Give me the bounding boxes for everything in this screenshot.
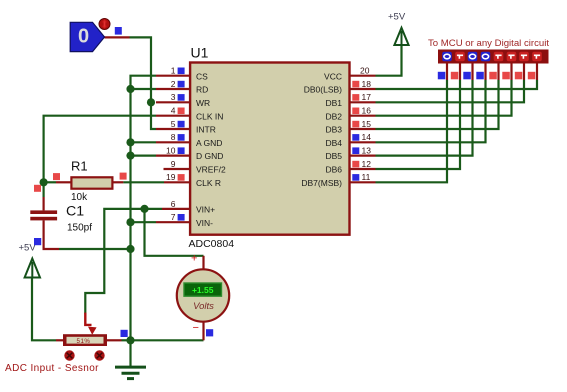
svg-text:5: 5 bbox=[171, 119, 176, 129]
wire: VIN+ pin 6 to pot wiper bbox=[85, 209, 162, 314]
svg-text:CLK R: CLK R bbox=[196, 178, 221, 188]
svg-text:16: 16 bbox=[362, 106, 372, 116]
node WR junction bbox=[147, 98, 155, 106]
svg-text:CLK IN: CLK IN bbox=[196, 111, 223, 121]
svg-text:DB2: DB2 bbox=[325, 111, 342, 121]
svg-text:15: 15 bbox=[362, 119, 372, 129]
IC U1 ADC0804 body bbox=[190, 63, 349, 235]
pin 5 INTR stub bbox=[156, 128, 191, 130]
svg-text:20: 20 bbox=[360, 66, 370, 76]
wire state square C1 bottom bbox=[34, 238, 41, 245]
svg-text:18: 18 bbox=[362, 79, 372, 89]
svg-text:−: − bbox=[193, 322, 199, 334]
svg-text:RD: RD bbox=[196, 85, 208, 95]
pin 9 VREF/2 stub bbox=[164, 168, 192, 170]
header cell 3 bit 0 bbox=[468, 52, 478, 62]
power arrow bottom +5V bbox=[25, 259, 40, 278]
pin 14 DB4 stub bbox=[349, 141, 376, 143]
svg-text:CS: CS bbox=[196, 71, 208, 81]
svg-text:WR: WR bbox=[196, 98, 210, 108]
pin 16 DB2 stub bbox=[349, 115, 376, 117]
power arrow top +5V bbox=[394, 28, 408, 45]
svg-text:DB6: DB6 bbox=[325, 165, 342, 175]
svg-text:7: 7 bbox=[171, 212, 176, 222]
svg-text:INTR: INTR bbox=[196, 125, 216, 135]
pin 11 DB7(MSB) stub bbox=[349, 181, 376, 183]
node bottom rail junction bbox=[126, 336, 134, 344]
header pin stub col 4 bbox=[484, 64, 486, 81]
header pin stub col 7 bbox=[523, 64, 525, 81]
pin numbers left bbox=[166, 66, 176, 223]
header pin stub col 3 bbox=[471, 64, 473, 81]
node C1 bottom junction bbox=[126, 245, 134, 253]
wire: C1 top lead bbox=[42, 182, 44, 197]
wire: R1 right lead to CLK R pin 19 bbox=[112, 181, 123, 183]
svg-text:10k: 10k bbox=[71, 192, 88, 203]
resistor R1 bbox=[71, 177, 112, 188]
wire state square CLK IN junction bbox=[34, 185, 41, 192]
header cell 5 bit 1 bbox=[494, 52, 504, 62]
svg-text:VIN+: VIN+ bbox=[196, 205, 215, 215]
pin state squares left bbox=[178, 68, 185, 221]
svg-text:R1: R1 bbox=[71, 159, 88, 174]
svg-text:3: 3 bbox=[171, 92, 176, 102]
header pin stub col 5 bbox=[497, 64, 499, 81]
wire: A GND branch bbox=[131, 141, 157, 143]
svg-text:51%: 51% bbox=[77, 338, 91, 345]
node RD junction bbox=[126, 85, 134, 93]
pin 13 DB5 stub bbox=[349, 155, 376, 157]
pin name labels left bbox=[196, 71, 226, 228]
svg-text:14: 14 bbox=[362, 132, 372, 142]
node R1 C1 CLK-IN junction bbox=[40, 178, 48, 186]
potentiometer RV body bbox=[63, 334, 107, 346]
pin 7 VIN- stub bbox=[156, 221, 191, 223]
wire: +5V arrow shaft to bottom rail bbox=[32, 262, 56, 340]
pin state squares right bbox=[352, 81, 359, 181]
svg-text:DB7(MSB): DB7(MSB) bbox=[301, 178, 342, 188]
wire: CLK IN pin 4 long left run bbox=[44, 116, 156, 183]
svg-text:U1: U1 bbox=[191, 44, 209, 60]
wire: D GND branch bbox=[131, 155, 157, 157]
wire: DB6 pin 12 to header column bbox=[376, 80, 461, 169]
wire: voltmeter plus feed bbox=[145, 209, 204, 256]
wire: VIN- branch bbox=[131, 221, 157, 223]
pin 1 CS stub bbox=[156, 75, 191, 77]
wire: DB7 pin 11 to header column bbox=[376, 80, 448, 182]
wire state square R1 right bbox=[120, 173, 127, 180]
svg-text:12: 12 bbox=[362, 159, 372, 169]
svg-text:DB4: DB4 bbox=[325, 138, 342, 148]
svg-text:13: 13 bbox=[362, 146, 372, 156]
pin 17 DB1 stub bbox=[349, 101, 376, 103]
svg-text:17: 17 bbox=[362, 92, 372, 102]
pin 6 VIN+ stub bbox=[162, 208, 191, 210]
svg-text:C1: C1 bbox=[66, 204, 84, 220]
svg-text:4: 4 bbox=[171, 106, 176, 116]
pin 4 CLK IN stub bbox=[156, 115, 191, 117]
svg-text:+: + bbox=[191, 253, 197, 265]
pin 19 CLK R stub bbox=[164, 181, 191, 183]
wire: RD branch bbox=[131, 88, 157, 90]
wire: ground stem bbox=[129, 340, 131, 366]
wire: DB3 pin 15 to header column bbox=[376, 80, 499, 129]
svg-text:ADC0804: ADC0804 bbox=[189, 238, 235, 250]
wire state square R1 left bbox=[53, 173, 60, 180]
svg-text:0: 0 bbox=[78, 26, 89, 48]
wire: DB5 pin 13 to header column bbox=[376, 80, 473, 156]
pin 10 D GND stub bbox=[156, 155, 191, 157]
pot terminal marker 1 bbox=[64, 350, 74, 360]
svg-text:VCC: VCC bbox=[324, 71, 342, 81]
header cell 4 bit 0 bbox=[481, 52, 491, 62]
svg-text:1: 1 bbox=[171, 66, 176, 76]
svg-text:Volts: Volts bbox=[193, 301, 214, 312]
svg-text:+5V: +5V bbox=[19, 243, 37, 254]
header pin stub col 6 bbox=[510, 64, 512, 81]
voltmeter top lead bbox=[202, 256, 204, 269]
header cell 2 bit 1 bbox=[455, 52, 465, 62]
svg-text:6: 6 bbox=[171, 199, 176, 209]
svg-text:9: 9 bbox=[171, 159, 176, 169]
svg-text:19: 19 bbox=[166, 172, 176, 182]
header cell 6 bit 1 bbox=[507, 52, 517, 62]
pin 2 RD stub bbox=[156, 88, 191, 90]
wire: +5V to VCC pin 20 bbox=[376, 45, 402, 76]
capacitor C1 bbox=[30, 210, 57, 220]
header wire state squares bbox=[438, 72, 536, 80]
svg-text:10: 10 bbox=[166, 146, 176, 156]
potentiometer RV right lead bbox=[107, 339, 122, 341]
wire: DB1 pin 17 to header column bbox=[376, 80, 525, 102]
pin 8 A GND stub bbox=[156, 141, 191, 143]
wire: DB4 pin 14 to header column bbox=[376, 80, 486, 142]
svg-text:11: 11 bbox=[362, 172, 371, 182]
wire: logic state to WR net bbox=[130, 37, 152, 102]
ground bbox=[115, 367, 146, 379]
wire: CS pin 1 to ground net vertical bbox=[131, 76, 157, 223]
logic state 0 input bbox=[70, 22, 104, 51]
voltmeter body bbox=[177, 269, 229, 321]
voltmeter bottom lead bbox=[202, 322, 204, 341]
svg-text:VREF/2: VREF/2 bbox=[196, 165, 226, 175]
svg-text:DB5: DB5 bbox=[325, 151, 342, 161]
potentiometer RV left lead bbox=[56, 339, 63, 341]
svg-text:+5V: +5V bbox=[388, 12, 406, 23]
svg-text:2: 2 bbox=[171, 79, 176, 89]
pin 3 WR stub bbox=[156, 101, 191, 103]
header pin stub col 8 bbox=[536, 64, 538, 81]
header cell 8 bit 1 bbox=[532, 52, 542, 62]
voltmeter display +1.55 bbox=[184, 283, 222, 296]
pin 18 DB0(LSB) stub bbox=[349, 88, 376, 90]
pin numbers right bbox=[360, 66, 371, 183]
node state square at logic wire bbox=[115, 27, 122, 35]
svg-text:DB0(LSB): DB0(LSB) bbox=[304, 85, 342, 95]
wire: DB2 pin 16 to header column bbox=[376, 80, 512, 116]
wire: bottom rail to voltmeter minus bbox=[131, 339, 204, 341]
svg-text:DB1: DB1 bbox=[325, 98, 342, 108]
pin 15 DB3 stub bbox=[349, 128, 376, 130]
node VIN- junction bbox=[126, 218, 134, 226]
wire: logic state output stub bbox=[105, 36, 130, 38]
svg-text:ADC Input - Sesnor: ADC Input - Sesnor bbox=[5, 363, 99, 374]
wire: WR junction down to INTR pin 5 bbox=[151, 102, 156, 129]
node VIN+ voltmeter junction bbox=[140, 205, 148, 213]
pot terminal marker 2 bbox=[94, 350, 104, 360]
pin 12 DB6 stub bbox=[349, 168, 376, 170]
connector header J1 block bbox=[438, 50, 549, 64]
wire state square pot right bbox=[121, 330, 128, 337]
wire state square voltmeter minus bbox=[206, 329, 213, 336]
svg-text:To MCU or any Digital circuit: To MCU or any Digital circuit bbox=[428, 38, 549, 49]
svg-text:A GND: A GND bbox=[196, 138, 222, 148]
node D GND junction bbox=[126, 152, 134, 160]
pot wiper arrow bbox=[85, 313, 91, 325]
svg-text:+1.55: +1.55 bbox=[192, 285, 214, 295]
node A GND junction bbox=[126, 138, 134, 146]
svg-text:D GND: D GND bbox=[196, 151, 223, 161]
header pin stub col 1 bbox=[446, 64, 448, 81]
header cell 7 bit 1 bbox=[519, 52, 529, 62]
pin 20 VCC stub bbox=[349, 75, 376, 77]
pin name labels right bbox=[301, 71, 342, 188]
logic state toggle button bbox=[99, 19, 110, 30]
wire: R1 left lead bbox=[44, 181, 56, 183]
wire: ground net vertical to bottom rail bbox=[129, 222, 131, 340]
svg-text:DB3: DB3 bbox=[325, 125, 342, 135]
header cell 1 bit 0 bbox=[442, 52, 452, 62]
svg-text:VIN-: VIN- bbox=[196, 218, 213, 228]
svg-text:150pf: 150pf bbox=[67, 223, 92, 234]
wire: C1 bottom lead to ground junction bbox=[44, 220, 59, 249]
header pin stub col 2 bbox=[459, 64, 461, 81]
svg-text:8: 8 bbox=[171, 132, 176, 142]
wire: DB0 pin 18 to header column bbox=[376, 80, 538, 89]
